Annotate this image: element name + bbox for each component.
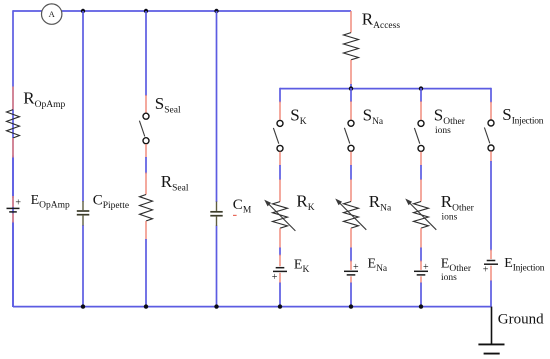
label E_Other ions bbox=[441, 257, 472, 283]
label E_K bbox=[294, 258, 310, 276]
node bottom of branch6 bbox=[349, 304, 353, 308]
label R_K bbox=[296, 192, 314, 214]
node bottom of branch5 bbox=[278, 304, 282, 308]
wire blue mid segment branch8 bbox=[490, 161, 492, 251]
resistor R_OpAmp bbox=[7, 87, 20, 158]
label C_Pipette bbox=[93, 192, 129, 211]
wire left vertical bbox=[12, 10, 14, 307]
node at top of C_M branch bbox=[214, 9, 218, 13]
wire blue upper segment branch1 bbox=[12, 156, 14, 199]
capacitor C_Pipette bbox=[77, 201, 90, 226]
label R_Other ions bbox=[441, 192, 475, 223]
capacitor C_M bbox=[210, 202, 222, 227]
stray red mark under C_M label bbox=[233, 214, 237, 216]
wire blue stub between R_Na and E_Na bbox=[350, 248, 352, 262]
battery E_Other bbox=[414, 261, 429, 284]
switch S_Other bbox=[414, 101, 424, 166]
node bottom of branch2 bbox=[81, 304, 85, 308]
wire blue upper segment branch4 bbox=[216, 11, 218, 202]
label E_Injection bbox=[504, 256, 545, 274]
label S_Na bbox=[363, 106, 384, 128]
wire blue upper segment branch5 bbox=[279, 88, 281, 103]
svg-text:Ground: Ground bbox=[498, 312, 544, 328]
svg-text:ions: ions bbox=[442, 213, 458, 223]
label Ground bbox=[498, 312, 544, 328]
svg-text:+: + bbox=[423, 262, 429, 273]
wire bottom horizontal bbox=[13, 306, 491, 308]
label R_Access bbox=[362, 10, 401, 32]
svg-text:A: A bbox=[49, 9, 56, 19]
resistor R_Access bbox=[344, 11, 359, 85]
wire blue mid segment branch6 bbox=[350, 165, 352, 180]
wire blue lower segment branch6 bbox=[350, 283, 352, 308]
wire blue mid segment branch5 bbox=[279, 165, 281, 180]
variable resistor R_Other bbox=[405, 179, 436, 248]
svg-text:+: + bbox=[15, 197, 21, 208]
variable resistor R_Na bbox=[335, 179, 366, 248]
wire blue mid segment branch7 bbox=[420, 165, 422, 180]
label R_Seal bbox=[161, 172, 189, 194]
switch S_Seal bbox=[139, 95, 149, 158]
ammeter A bbox=[42, 4, 62, 24]
wire blue upper segment branch8 bbox=[490, 88, 492, 103]
wire blue lower segment branch3 bbox=[145, 239, 147, 307]
battery E_OpAmp bbox=[7, 196, 22, 223]
switch S_Na bbox=[344, 101, 354, 166]
wire blue lower segment branch4 bbox=[216, 226, 218, 308]
wire blue upper segment branch3 bbox=[145, 11, 147, 96]
node bus at x=421 bbox=[419, 86, 423, 90]
wire blue lower segment branch1 bbox=[12, 222, 14, 308]
node bottom of branch3 bbox=[144, 304, 148, 308]
wire top horizontal bbox=[13, 10, 351, 12]
resistor R_Seal bbox=[140, 173, 153, 241]
svg-text:+: + bbox=[272, 272, 278, 283]
label E_Na bbox=[368, 257, 388, 275]
ground bbox=[478, 307, 504, 354]
svg-text:ions: ions bbox=[435, 126, 451, 136]
svg-text:ions: ions bbox=[441, 273, 457, 283]
node bottom of branch7 bbox=[419, 304, 423, 308]
label R_Na bbox=[369, 192, 392, 214]
wire blue stub between R_K and E_K bbox=[279, 248, 281, 256]
node bottom of branch4 bbox=[214, 304, 218, 308]
label S_Other ions bbox=[434, 106, 466, 137]
wire blue stub between R_Other and E_Other bbox=[420, 248, 422, 262]
node at top of S_Seal branch bbox=[144, 9, 148, 13]
node at top of C_Pipette branch bbox=[81, 9, 85, 13]
battery E_K bbox=[272, 255, 287, 284]
label R_OpAmp bbox=[23, 89, 65, 111]
wire blue upper segment branch7 bbox=[420, 88, 422, 102]
variable resistor R_K bbox=[264, 179, 295, 248]
wire blue lower segment branch8 bbox=[490, 281, 492, 308]
wire blue lower segment branch5 bbox=[279, 283, 281, 308]
wire blue lower segment branch2 bbox=[82, 225, 84, 307]
switch S_Injection bbox=[484, 102, 494, 162]
svg-text:+: + bbox=[353, 262, 359, 273]
label S_Injection bbox=[502, 105, 543, 127]
label S_K bbox=[290, 106, 306, 128]
battery E_Injection bbox=[483, 250, 498, 282]
svg-text:+: + bbox=[483, 265, 489, 276]
wire blue upper segment branch2 bbox=[82, 11, 84, 202]
label E_OpAmp bbox=[31, 193, 70, 211]
switch S_K bbox=[273, 102, 283, 167]
wire blue mid segment branch3 bbox=[145, 157, 147, 174]
wire blue stub above bus bbox=[350, 84, 352, 89]
wire blue lower segment branch7 bbox=[420, 283, 422, 308]
wire bus horizontal bbox=[280, 88, 491, 90]
label S_Seal bbox=[155, 94, 181, 116]
label C_M bbox=[233, 197, 252, 216]
battery E_Na bbox=[344, 261, 359, 284]
wire blue upper segment branch6 bbox=[350, 88, 352, 102]
node bus at x=351 bbox=[349, 86, 353, 90]
